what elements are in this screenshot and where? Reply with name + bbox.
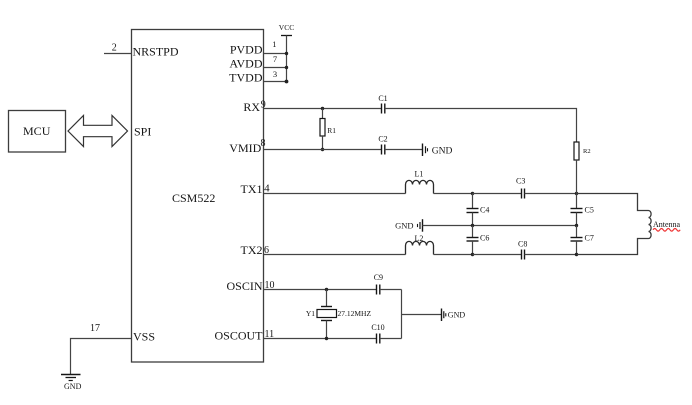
junction OSCIN/Y1: [325, 288, 328, 291]
capacitor C1: [378, 94, 387, 114]
inductor L1: [406, 170, 434, 194]
wire VSS to ground: [71, 339, 132, 375]
capacitor C6: [467, 226, 490, 255]
SPI bus double arrow: [68, 116, 128, 147]
junction RX/R1: [321, 107, 324, 110]
junction mid/C4-C6: [471, 224, 474, 227]
ground GND (after C2): [423, 144, 453, 157]
pin OSCIN label: [226, 279, 262, 293]
svg-text:C1: C1: [378, 94, 387, 103]
capacitor C9: [374, 273, 383, 295]
capacitor C7: [571, 226, 594, 255]
wire TVDD stub: [264, 81, 287, 83]
pin VSS label: [133, 330, 155, 344]
wire L2 to C6 node: [434, 254, 473, 256]
junction TX1/C4: [471, 192, 474, 195]
ground GND (VSS): [61, 375, 82, 392]
wire C8 to C7 node: [525, 254, 577, 256]
pin TX1 label: [241, 182, 263, 196]
junction TX2/C6: [471, 253, 474, 256]
pin NRSTPD label: [133, 45, 179, 59]
wire AVDD stub: [264, 67, 287, 69]
svg-text:L1: L1: [415, 170, 424, 179]
wire C10 to right rail: [380, 338, 402, 340]
svg-text:GND: GND: [432, 147, 453, 157]
wire C3 to C5 node: [525, 193, 577, 195]
svg-text:2: 2: [112, 42, 117, 53]
svg-text:C2: C2: [378, 135, 387, 144]
ground GND (oscillator): [442, 309, 466, 322]
junction TX2/C7: [575, 253, 578, 256]
power VCC symbol: [279, 23, 294, 82]
svg-text:GND: GND: [64, 382, 82, 391]
pin PVDD label: [230, 43, 263, 57]
pin number 9 (RX): [261, 100, 266, 111]
svg-text:NRSTPD: NRSTPD: [133, 45, 179, 59]
svg-text:VMID: VMID: [229, 141, 261, 155]
pin number 6 (TX2): [264, 245, 269, 256]
wire C4 node to C3: [473, 193, 522, 195]
capacitor C10: [371, 323, 384, 344]
wire TX2 to L2: [264, 254, 406, 256]
svg-text:17: 17: [90, 323, 100, 334]
svg-text:RX: RX: [243, 100, 260, 114]
svg-text:SPI: SPI: [134, 125, 151, 139]
capacitor C2: [378, 135, 387, 155]
svg-text:C9: C9: [374, 273, 383, 282]
svg-text:R2: R2: [583, 148, 591, 155]
svg-text:Y1: Y1: [306, 309, 315, 318]
pin number 8 (VMID): [261, 138, 266, 149]
pin NRSTPD wire: [104, 53, 132, 55]
pin number 11 (OSCOUT): [265, 329, 275, 340]
pin TX2 label: [241, 243, 263, 257]
wire PVDD stub: [264, 53, 287, 55]
label Antenna: [653, 220, 681, 231]
svg-text:AVDD: AVDD: [229, 57, 262, 71]
svg-text:C3: C3: [516, 177, 525, 186]
wire OSCOUT to C10: [264, 338, 377, 340]
wire mid ground rail: [423, 225, 577, 227]
capacitor C4: [467, 194, 490, 226]
svg-text:R1: R1: [327, 126, 336, 135]
wire C9 to right rail: [380, 289, 402, 291]
svg-text:3: 3: [273, 69, 277, 79]
svg-text:4: 4: [264, 183, 270, 195]
svg-text:TVDD: TVDD: [229, 71, 263, 85]
svg-text:8: 8: [261, 138, 266, 149]
svg-text:C8: C8: [518, 240, 527, 249]
label 27.12MHZ: [338, 309, 372, 318]
resistor R1: [320, 109, 336, 150]
junction VCC/TVDD: [285, 80, 289, 84]
ground GND (TX middle): [395, 219, 422, 232]
junction TX1/C5/R2: [575, 192, 578, 195]
svg-text:C6: C6: [480, 234, 489, 243]
pin number 1 (PVDD): [272, 39, 276, 49]
junction VMID/R1: [321, 148, 324, 151]
svg-text:TX2: TX2: [241, 243, 263, 257]
pin number 4 (TX1): [264, 183, 270, 195]
svg-text:Antenna: Antenna: [653, 220, 681, 229]
pin number 3 (TVDD): [273, 69, 277, 79]
svg-text:GND: GND: [395, 220, 413, 230]
pin number 17 (VSS): [90, 323, 100, 334]
resistor R2: [574, 142, 591, 194]
wire C1 to R2 rail: [385, 109, 577, 143]
svg-text:OSCIN: OSCIN: [226, 279, 262, 293]
wire rail to ground: [402, 314, 442, 316]
junction VCC/PVDD: [285, 52, 288, 55]
pin VMID label: [229, 141, 261, 155]
capacitor C8: [518, 240, 527, 260]
pin number 10 (OSCIN): [265, 280, 275, 291]
pin AVDD label: [229, 57, 262, 71]
svg-text:VSS: VSS: [133, 330, 155, 344]
junction mid/C5-C7: [575, 224, 578, 227]
svg-text:MCU: MCU: [23, 124, 51, 138]
svg-text:VCC: VCC: [279, 23, 294, 32]
inductor L2: [406, 234, 434, 255]
svg-text:1: 1: [272, 39, 276, 49]
wire OSCIN to C9: [264, 289, 377, 291]
svg-text:C4: C4: [480, 206, 489, 215]
svg-text:C5: C5: [585, 206, 594, 215]
wire C6 node to C8: [473, 254, 522, 256]
wire VMID to C2: [264, 149, 382, 151]
svg-text:OSCOUT: OSCOUT: [214, 328, 263, 342]
crystal Y1: [306, 290, 337, 339]
wire oscillator right rail: [401, 290, 403, 339]
svg-text:C10: C10: [371, 323, 384, 332]
capacitor C5: [571, 194, 594, 226]
svg-text:7: 7: [273, 54, 277, 64]
pin OSCOUT label: [214, 328, 263, 342]
svg-text:PVDD: PVDD: [230, 43, 263, 57]
wire L1 to C4 node: [434, 193, 473, 195]
pin number 7 (AVDD): [273, 54, 277, 64]
capacitor C3: [516, 177, 525, 199]
wire RX to C1: [264, 108, 382, 110]
MCU block: [9, 111, 66, 153]
svg-text:TX1: TX1: [241, 182, 263, 196]
junction OSCOUT/Y1: [325, 337, 328, 340]
svg-text:GND: GND: [448, 311, 466, 320]
pin SPI label: [134, 125, 151, 139]
wire C2 to ground: [385, 149, 423, 151]
svg-text:C7: C7: [585, 234, 594, 243]
junction VCC/AVDD: [285, 66, 288, 69]
svg-text:CSM522: CSM522: [172, 191, 215, 205]
IC U1 CSM522 body: [132, 30, 264, 363]
svg-text:27.12MHZ: 27.12MHZ: [338, 309, 372, 318]
wire TX1 to L1: [264, 193, 406, 195]
pin RX label: [243, 100, 260, 114]
pin TVDD label: [229, 71, 263, 85]
antenna coil ANT: [577, 194, 652, 255]
pin number 2 (NRSTPD): [112, 42, 117, 53]
